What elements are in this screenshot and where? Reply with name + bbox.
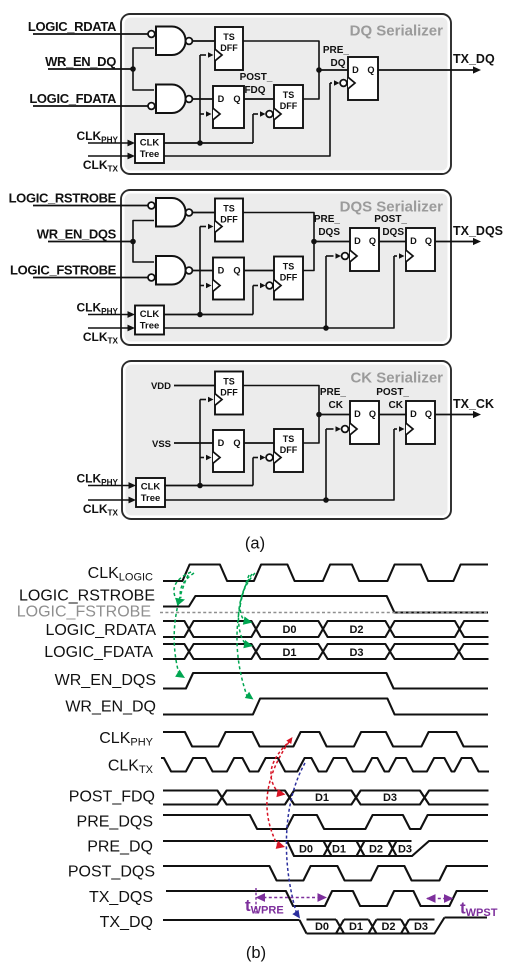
wire clock spine 2: [199, 227, 201, 315]
bubble G3 input: [148, 202, 155, 209]
green arrow CLK_LOGIC to WR_EN_DQ: [237, 575, 249, 696]
wire LOGIC_RSTROBE: [33, 205, 148, 207]
svg-text:POST_: POST_: [240, 72, 273, 83]
svg-text:POST_: POST_: [376, 387, 409, 398]
svg-text:TS: TS: [223, 204, 235, 214]
bubble G2 input: [148, 103, 155, 110]
wire U3 output to PRE_DQ node: [303, 70, 319, 99]
arrow TX_DQS: [473, 238, 481, 245]
wire U13 Q to U14 D: [379, 414, 406, 416]
wire CLK Tree 3 output: [164, 485, 253, 487]
wire CLK_TX to U8 clock: [325, 256, 327, 328]
svg-text:POST_: POST_: [374, 214, 407, 225]
svg-text:Q: Q: [233, 94, 240, 104]
wire clock to U7: [252, 286, 254, 315]
CLK Tree box 2: [135, 306, 164, 335]
serializer block box: DQS Serializer: [121, 190, 451, 345]
node PRE_CK: [316, 412, 322, 418]
svg-text:TX_DQS: TX_DQS: [89, 889, 153, 906]
svg-text:VDD: VDD: [151, 381, 171, 392]
nand gate G4 (LOGIC_FSTROBE, WR_EN_DQS): [156, 256, 186, 285]
svg-text:CLK: CLK: [140, 138, 160, 149]
node clock spine: [197, 140, 203, 146]
output DFF U13 (falling): [350, 401, 379, 444]
waveform LOGIC_RDATA bus: [163, 621, 489, 637]
svg-text:D: D: [354, 409, 361, 419]
waveform TX_DQ burst: [163, 919, 300, 921]
TS DFF U7 (falling): [274, 257, 303, 300]
waveform CLK_TX: [161, 758, 489, 772]
svg-text:WR_EN_DQS: WR_EN_DQS: [37, 227, 117, 242]
svg-text:TS: TS: [223, 377, 235, 387]
wire TX_DQ output: [378, 69, 474, 71]
wire CLK Tree 2 output: [164, 314, 253, 316]
TS DFF U12 (falling): [274, 429, 303, 472]
waveform CLK_LOGIC: [163, 565, 488, 582]
wire U7 output to PRE_DQS node: [303, 242, 314, 271]
svg-text:LOGIC_FSTROBE: LOGIC_FSTROBE: [17, 604, 151, 621]
svg-text:D: D: [410, 409, 417, 419]
wire PRE_DQ to U4 D input: [319, 69, 348, 71]
red arrow CLK_PHY to PRE_DQ: [267, 742, 289, 844]
wire VSS: [174, 442, 213, 444]
wire clock spine: [199, 55, 201, 143]
clock arrow into U10: [200, 399, 206, 401]
wire clock to U3: [252, 114, 254, 143]
green arrow CLK_LOGIC to WR_EN_DQS: [174, 575, 188, 674]
output DFF U4 (falling): [348, 57, 378, 100]
svg-text:LOGIC_RDATA: LOGIC_RDATA: [45, 622, 156, 639]
clock arrow into U6: [200, 285, 204, 287]
waveform TX_DQS: [166, 891, 488, 906]
nand gate G1 (LOGIC_RDATA, WR_EN_DQ): [156, 27, 186, 56]
wire PRE_CK to U13: [319, 414, 350, 416]
svg-text:DFF: DFF: [220, 215, 238, 225]
svg-text:D1: D1: [349, 921, 363, 933]
CLK Tree box 3: [136, 478, 165, 507]
svg-text:DQ Serializer: DQ Serializer: [350, 23, 444, 40]
wire U5 output to PRE_DQS node: [243, 213, 314, 242]
svg-text:D3: D3: [383, 792, 397, 804]
svg-text:CLK: CLK: [140, 309, 160, 320]
wire CLK_PHY into CLK Tree 3: [88, 485, 131, 487]
svg-text:Q: Q: [233, 266, 240, 276]
svg-text:Q: Q: [425, 236, 432, 246]
wire U12 output to PRE_CK node: [303, 415, 319, 444]
svg-text:Q: Q: [233, 438, 240, 448]
svg-text:LOGIC_FSTROBE: LOGIC_FSTROBE: [10, 263, 117, 278]
svg-text:D0: D0: [282, 624, 296, 636]
svg-text:Tree: Tree: [140, 321, 160, 332]
clock arrow into U3: [253, 113, 258, 115]
node WR_EN_DQS junction: [130, 239, 136, 245]
svg-text:(a): (a): [245, 535, 265, 553]
wire U2 Q to U3: [244, 98, 274, 100]
wire LOGIC_RDATA: [33, 33, 148, 35]
bubble G1 input: [148, 31, 155, 38]
serializer block box: DQ Serializer: [121, 14, 451, 174]
clock arrow into U12: [253, 457, 258, 459]
bubble U3 clock: [266, 111, 273, 118]
bubble G4 input: [148, 274, 155, 281]
svg-text:D1: D1: [315, 792, 329, 804]
svg-text:D3: D3: [414, 921, 428, 933]
bubble U12 clock: [266, 454, 273, 461]
node CLK_TX tap: [323, 325, 329, 331]
svg-text:LOGIC_RSTROBE: LOGIC_RSTROBE: [19, 588, 155, 605]
svg-text:DQS: DQS: [382, 227, 404, 238]
svg-text:Q: Q: [369, 236, 376, 246]
svg-text:DFF: DFF: [280, 445, 298, 455]
wire VDD: [174, 385, 215, 387]
TS DFF U5 (rising): [215, 199, 243, 242]
wire TX_DQS output: [435, 241, 474, 243]
wire G1 output: [192, 40, 215, 42]
wire CLK_TX to U9 clock: [164, 256, 394, 328]
wire LOGIC_FDATA: [33, 105, 148, 107]
svg-text:POST_FDQ: POST_FDQ: [69, 789, 155, 806]
clock arrow into U14: [394, 428, 397, 430]
D-Q latch U6: [213, 258, 244, 300]
nand gate G3 (LOGIC_RSTROBE, WR_EN_DQS): [156, 198, 186, 227]
svg-text:D: D: [410, 236, 417, 246]
svg-text:D1: D1: [332, 844, 346, 856]
wire CLK_TX to U14 clock: [164, 429, 394, 500]
wire G2 output: [192, 98, 213, 100]
svg-text:TX_DQS: TX_DQS: [453, 224, 503, 238]
svg-text:Q: Q: [425, 409, 432, 419]
wire CLK_PHY into CLK Tree: [88, 314, 130, 316]
svg-text:VSS: VSS: [152, 439, 171, 450]
svg-text:TS: TS: [283, 90, 295, 100]
wire TX_CK output: [435, 414, 474, 416]
D-Q latch U11: [213, 430, 244, 472]
wire WR_EN_DQS to NAND inputs: [133, 221, 154, 263]
svg-text:PRE_: PRE_: [323, 45, 350, 56]
svg-text:PRE_DQ: PRE_DQ: [87, 839, 153, 856]
wire CLK_TX into CLK Tree 3: [88, 499, 131, 501]
clock arrow into U7: [253, 285, 258, 287]
wire G4 output: [192, 270, 213, 272]
svg-text:PRE_: PRE_: [320, 387, 347, 398]
node PRE_DQ: [316, 67, 322, 73]
blue arrow CLK_TX to TX_DQ: [286, 763, 305, 915]
wire WR_EN_DQ to NAND inputs: [133, 48, 154, 90]
svg-text:TX_DQ: TX_DQ: [100, 914, 153, 931]
node clock spine 3: [197, 483, 203, 489]
svg-text:CLK: CLK: [141, 482, 161, 493]
wire PRE_DQS to U8: [314, 241, 350, 243]
waveform LOGIC_RSTROBE: [163, 596, 488, 613]
svg-text:D: D: [218, 266, 225, 276]
svg-text:LOGIC_FDATA: LOGIC_FDATA: [29, 91, 117, 106]
svg-text:Q: Q: [369, 409, 376, 419]
node CLK_TX tap 3: [323, 497, 329, 503]
red arrow CLK_PHY to POST_FDQ: [271, 740, 291, 791]
purple arrow tWPRE: [258, 897, 324, 899]
svg-text:D3: D3: [349, 647, 363, 659]
svg-text:CK: CK: [389, 400, 404, 411]
svg-text:CK: CK: [329, 400, 344, 411]
svg-text:LOGIC_RDATA: LOGIC_RDATA: [28, 19, 117, 34]
svg-text:D: D: [218, 94, 225, 104]
svg-text:DFF: DFF: [220, 43, 238, 53]
svg-text:DQS: DQS: [318, 227, 340, 238]
svg-text:TX_DQ: TX_DQ: [453, 52, 495, 66]
wire CLK_TX into CLK Tree: [88, 155, 130, 157]
waveform POST_DQS: [163, 866, 488, 881]
clock arrow into U5: [200, 226, 206, 228]
svg-text:DFF: DFF: [220, 388, 238, 398]
waveform CLK_PHY: [163, 732, 488, 747]
svg-text:LOGIC_RSTROBE: LOGIC_RSTROBE: [9, 191, 117, 206]
svg-text:D2: D2: [349, 624, 363, 636]
wire G3 output: [192, 212, 215, 214]
svg-text:TS: TS: [223, 32, 235, 42]
wire clock spine 3: [199, 400, 201, 486]
svg-text:CK Serializer: CK Serializer: [350, 370, 443, 387]
clock arrow into U11: [200, 457, 204, 459]
svg-text:D3: D3: [398, 844, 412, 856]
green arrow CLK_LOGIC to LOGIC_FDATA: [239, 574, 253, 644]
svg-text:Q: Q: [367, 65, 374, 75]
svg-text:LOGIC_FDATA: LOGIC_FDATA: [44, 644, 153, 661]
wire CLK_TX to U13 clock: [325, 429, 327, 500]
bubble U4 clock: [340, 80, 347, 87]
bubble U8 clock: [342, 253, 349, 260]
svg-text:D2: D2: [381, 921, 395, 933]
clock arrow into U4: [330, 82, 332, 84]
svg-text:D0: D0: [299, 844, 313, 856]
svg-text:TS: TS: [283, 262, 295, 272]
waveform PRE_DQ burst: [163, 840, 412, 842]
svg-text:PRE_DQS: PRE_DQS: [77, 814, 153, 831]
wire U8 Q to U9 D: [379, 241, 406, 243]
svg-text:Tree: Tree: [140, 149, 160, 160]
svg-text:D2: D2: [369, 844, 383, 856]
serializer block box: CK Serializer: [122, 361, 451, 519]
svg-text:WR_EN_DQS: WR_EN_DQS: [55, 672, 156, 689]
svg-text:TS: TS: [283, 434, 295, 444]
arrow TX_DQ: [473, 66, 481, 73]
svg-text:(b): (b): [246, 944, 266, 962]
svg-text:Tree: Tree: [141, 493, 161, 504]
wire CLK Tree output: [164, 142, 253, 144]
svg-text:DQ: DQ: [331, 58, 346, 69]
svg-text:WR_EN_DQ: WR_EN_DQ: [65, 699, 156, 716]
waveform WR_EN_DQS: [163, 673, 488, 689]
bubble U7 clock: [266, 282, 273, 289]
wire U10 output to PRE_CK node: [243, 386, 319, 415]
output DFF U8 (falling): [350, 228, 379, 271]
output DFF U9 (rising): [406, 228, 435, 271]
wire CLK_TX into CLK Tree: [88, 327, 130, 329]
svg-text:DFF: DFF: [280, 273, 298, 283]
waveform POST_FDQ bus: [163, 791, 489, 805]
svg-text:D1: D1: [282, 647, 296, 659]
wire U11 Q to U12: [244, 442, 274, 444]
green arrow CLK_LOGIC to LOGIC_RSTROBE: [174, 572, 191, 599]
output DFF U14 (rising): [406, 401, 435, 444]
wire U1 output to PRE_DQ node: [243, 41, 319, 70]
waveform WR_EN_DQ: [163, 699, 488, 715]
node clock spine 2: [197, 312, 203, 318]
svg-text:TX_CK: TX_CK: [453, 397, 494, 411]
clock arrow into U1: [200, 54, 206, 56]
svg-text:D: D: [352, 65, 359, 75]
svg-text:D: D: [218, 438, 225, 448]
TS DFF U3 (falling): [274, 85, 303, 128]
TS DFF U1 (rising): [215, 27, 243, 70]
svg-text:DQS Serializer: DQS Serializer: [340, 199, 444, 216]
svg-text:WR_EN_DQ: WR_EN_DQ: [45, 54, 116, 69]
wire CLK_TX to U4 clock: [164, 83, 330, 156]
svg-text:D: D: [354, 236, 361, 246]
node WR_EN_DQ junction: [130, 66, 136, 72]
svg-text:FDQ: FDQ: [244, 85, 265, 96]
clock arrow into U13: [326, 428, 334, 430]
arrow TX_CK: [473, 411, 481, 418]
TS DFF U10 (rising): [215, 372, 243, 415]
CLK Tree box: [135, 134, 164, 163]
svg-text:D0: D0: [315, 921, 329, 933]
node PRE_DQS: [311, 239, 317, 245]
svg-text:PRE_: PRE_: [314, 214, 341, 225]
waveform LOGIC_FSTROBE flat dashed: [160, 612, 488, 614]
svg-text:POST_DQS: POST_DQS: [68, 864, 155, 881]
waveform LOGIC_FDATA bus: [163, 644, 489, 659]
clock arrow into U8: [326, 255, 334, 257]
clock arrow into U2: [200, 113, 204, 115]
wire WR_EN_DQ: [48, 68, 133, 70]
nand gate G2 (LOGIC_FDATA, WR_EN_DQ): [156, 85, 186, 114]
wire LOGIC_FSTROBE: [33, 277, 148, 279]
D-Q latch U2: [213, 86, 244, 128]
wire CLK_PHY into CLK Tree: [88, 142, 130, 144]
waveform PRE_DQS: [163, 815, 488, 829]
svg-text:DFF: DFF: [280, 101, 298, 111]
wire clock to U12: [252, 458, 254, 486]
green arrow CLK_LOGIC to LOGIC_RDATA: [240, 573, 255, 621]
purple marker line WPRE: [255, 888, 257, 914]
wire U6 Q to U7: [244, 270, 274, 272]
bubble U13 clock: [342, 426, 349, 433]
wire WR_EN_DQS: [48, 241, 133, 243]
purple arrow tWPST: [427, 898, 452, 900]
clock arrow into U9: [394, 255, 397, 257]
